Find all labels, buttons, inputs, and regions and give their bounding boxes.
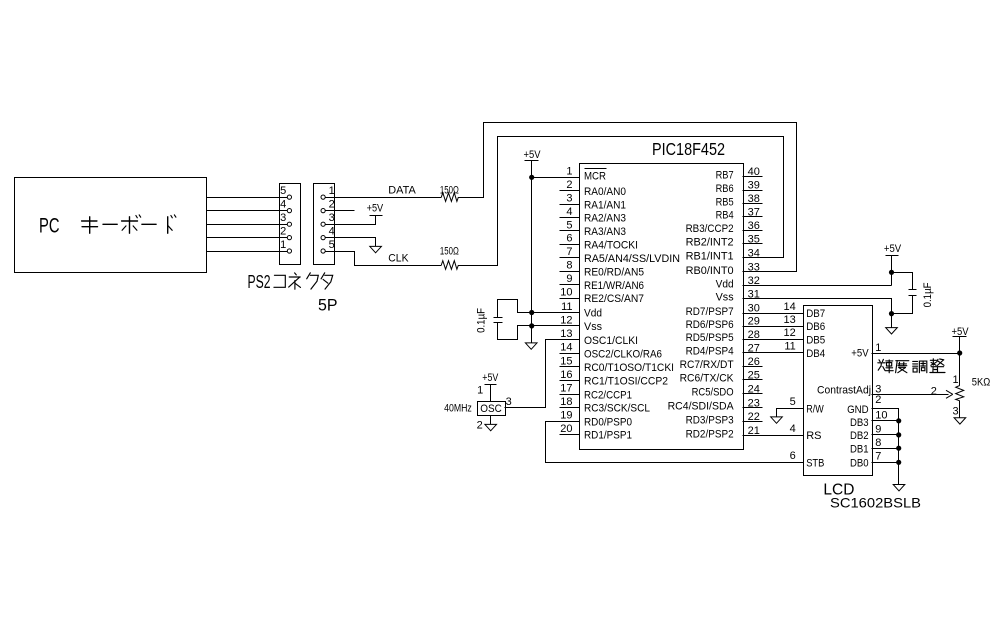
svg-text:24: 24 <box>748 383 760 395</box>
svg-text:CLK: CLK <box>388 253 409 265</box>
svg-text:OSC2/CLKO/RA6: OSC2/CLKO/RA6 <box>584 348 662 360</box>
svg-text:RB2/INT2: RB2/INT2 <box>686 237 734 249</box>
svg-text:29: 29 <box>748 316 760 328</box>
svg-text:RD0/PSP0: RD0/PSP0 <box>584 416 632 428</box>
svg-text:1: 1 <box>566 166 572 178</box>
svg-text:26: 26 <box>748 356 760 368</box>
svg-text:5: 5 <box>329 239 335 251</box>
svg-text:RB6: RB6 <box>716 183 734 195</box>
svg-text:+5V: +5V <box>482 372 499 384</box>
svg-text:8: 8 <box>566 260 572 272</box>
svg-text:30: 30 <box>748 303 760 315</box>
svg-text:2: 2 <box>329 199 335 211</box>
svg-text:OSC1/CLKI: OSC1/CLKI <box>584 335 638 347</box>
svg-text:DB6: DB6 <box>806 321 825 333</box>
svg-text:5: 5 <box>790 396 796 408</box>
svg-text:1: 1 <box>953 374 959 386</box>
svg-text:Vdd: Vdd <box>716 278 734 290</box>
svg-text:RC0/T1OSO/T1CKI: RC0/T1OSO/T1CKI <box>584 362 674 374</box>
svg-text:150Ω: 150Ω <box>440 246 459 258</box>
svg-text:RA5/AN4/SS/LVDIN: RA5/AN4/SS/LVDIN <box>584 253 680 265</box>
svg-text:+5V: +5V <box>367 202 384 214</box>
svg-text:5P: 5P <box>318 296 338 314</box>
svg-text:10: 10 <box>875 410 887 422</box>
svg-text:15: 15 <box>560 355 572 367</box>
svg-text:5: 5 <box>566 219 572 231</box>
svg-text:RB5: RB5 <box>716 196 734 208</box>
svg-text:7: 7 <box>566 246 572 258</box>
svg-text:5KΩ: 5KΩ <box>972 377 991 389</box>
svg-text:RD1/PSP1: RD1/PSP1 <box>584 430 632 442</box>
svg-text:DATA: DATA <box>388 185 416 197</box>
svg-text:RE0/RD/AN5: RE0/RD/AN5 <box>584 266 644 278</box>
svg-text:DB7: DB7 <box>806 308 825 320</box>
svg-text:13: 13 <box>560 328 572 340</box>
svg-text:11: 11 <box>784 341 795 353</box>
svg-text:1: 1 <box>329 185 335 197</box>
svg-text:1: 1 <box>477 385 483 397</box>
svg-text:34: 34 <box>748 247 760 259</box>
svg-text:RA1/AN1: RA1/AN1 <box>584 199 626 211</box>
svg-text:18: 18 <box>560 396 572 408</box>
svg-text:31: 31 <box>748 288 760 300</box>
svg-text:22: 22 <box>748 411 760 423</box>
svg-text:3: 3 <box>506 396 512 408</box>
svg-text:Vss: Vss <box>716 292 734 304</box>
svg-text:PIC18F452: PIC18F452 <box>652 139 725 159</box>
svg-text:27: 27 <box>748 342 760 354</box>
svg-text:3: 3 <box>280 212 286 224</box>
svg-text:11: 11 <box>561 301 572 313</box>
svg-text:35: 35 <box>748 233 760 245</box>
svg-text:RA0/AN0: RA0/AN0 <box>584 186 626 198</box>
svg-text:10: 10 <box>560 286 572 298</box>
svg-text:RC3/SCK/SCL: RC3/SCK/SCL <box>584 403 650 415</box>
svg-text:2: 2 <box>280 226 286 238</box>
svg-text:19: 19 <box>560 410 572 422</box>
svg-text:39: 39 <box>748 180 760 192</box>
svg-text:6: 6 <box>566 233 572 245</box>
svg-text:16: 16 <box>560 369 572 381</box>
svg-text:40: 40 <box>748 166 760 178</box>
svg-text:DB2: DB2 <box>850 430 869 442</box>
svg-text:RE2/CS/AN7: RE2/CS/AN7 <box>584 293 644 305</box>
svg-text:40MHz: 40MHz <box>444 403 472 415</box>
svg-text:23: 23 <box>748 397 760 409</box>
svg-text:Vdd: Vdd <box>584 308 602 320</box>
svg-text:Vss: Vss <box>584 321 602 333</box>
svg-text:8: 8 <box>875 437 881 449</box>
svg-text:RC2/CCP1: RC2/CCP1 <box>584 389 632 401</box>
svg-text:14: 14 <box>560 342 572 354</box>
svg-text:RB1/INT1: RB1/INT1 <box>686 251 734 263</box>
svg-text:17: 17 <box>560 383 572 395</box>
svg-text:DB5: DB5 <box>806 334 825 346</box>
svg-text:GND: GND <box>847 404 869 416</box>
svg-text:+5V: +5V <box>851 347 869 359</box>
svg-text:33: 33 <box>748 262 760 274</box>
svg-text:DB3: DB3 <box>850 417 869 429</box>
svg-text:0.1µF: 0.1µF <box>476 308 488 333</box>
svg-text:RB0/INT0: RB0/INT0 <box>686 265 734 277</box>
svg-text:RA2/AN3: RA2/AN3 <box>584 213 626 225</box>
svg-text:RC6/TX/CK: RC6/TX/CK <box>680 373 735 385</box>
svg-text:SC1602BSLB: SC1602BSLB <box>830 495 921 511</box>
svg-text:MCR: MCR <box>584 170 606 182</box>
svg-text:3: 3 <box>953 405 959 417</box>
svg-text:4: 4 <box>566 206 572 218</box>
svg-text:PC: PC <box>39 215 60 238</box>
svg-text:5: 5 <box>280 185 286 197</box>
svg-text:RB7: RB7 <box>716 170 734 182</box>
svg-text:RD6/PSP6: RD6/PSP6 <box>686 319 734 331</box>
svg-text:3: 3 <box>329 212 335 224</box>
svg-text:+5V: +5V <box>884 243 902 255</box>
svg-text:PS2: PS2 <box>248 271 271 292</box>
svg-text:3: 3 <box>566 193 572 205</box>
svg-text:6: 6 <box>790 450 796 462</box>
svg-text:RA4/TOCKI: RA4/TOCKI <box>584 240 638 252</box>
svg-text:37: 37 <box>748 206 760 218</box>
svg-text:32: 32 <box>748 275 760 287</box>
svg-text:21: 21 <box>748 425 760 437</box>
svg-text:RC5/SDO: RC5/SDO <box>692 387 734 399</box>
svg-text:RC4/SDI/SDA: RC4/SDI/SDA <box>668 401 735 413</box>
svg-text:12: 12 <box>784 327 796 339</box>
svg-text:38: 38 <box>748 193 760 205</box>
svg-text:ContrastAdj: ContrastAdj <box>817 385 871 397</box>
svg-text:1: 1 <box>875 342 881 354</box>
svg-text:RB4: RB4 <box>716 210 734 222</box>
svg-text:R/W: R/W <box>806 404 824 416</box>
svg-text:9: 9 <box>875 423 881 435</box>
svg-text:4: 4 <box>790 423 796 435</box>
svg-text:RD2/PSP2: RD2/PSP2 <box>686 428 734 440</box>
svg-text:+5V: +5V <box>524 149 542 161</box>
svg-text:OSC: OSC <box>480 403 502 415</box>
svg-text:4: 4 <box>280 199 286 211</box>
svg-text:DB1: DB1 <box>850 443 869 455</box>
svg-text:2: 2 <box>566 179 572 191</box>
svg-text:7: 7 <box>875 450 881 462</box>
svg-text:STB: STB <box>806 457 824 469</box>
svg-text:RD7/PSP7: RD7/PSP7 <box>686 306 734 318</box>
svg-text:1: 1 <box>280 239 286 251</box>
svg-text:2: 2 <box>477 419 483 431</box>
svg-text:RC1/T1OSI/CCP2: RC1/T1OSI/CCP2 <box>584 376 668 388</box>
svg-text:12: 12 <box>560 314 572 326</box>
svg-text:RE1/WR/AN6: RE1/WR/AN6 <box>584 280 644 292</box>
svg-text:RD4/PSP4: RD4/PSP4 <box>686 346 734 358</box>
svg-text:2: 2 <box>931 385 937 397</box>
svg-text:150Ω: 150Ω <box>440 184 459 196</box>
svg-text:+5V: +5V <box>952 326 970 338</box>
svg-text:RD3/PSP3: RD3/PSP3 <box>686 415 734 427</box>
svg-text:DB0: DB0 <box>850 458 869 470</box>
svg-text:RA3/AN3: RA3/AN3 <box>584 226 626 238</box>
svg-text:RC7/RX/DT: RC7/RX/DT <box>680 359 734 371</box>
svg-text:2: 2 <box>875 394 881 406</box>
svg-text:25: 25 <box>748 369 760 381</box>
svg-text:DB4: DB4 <box>806 348 825 360</box>
svg-text:RD5/PSP5: RD5/PSP5 <box>686 332 734 344</box>
svg-text:14: 14 <box>784 301 796 313</box>
svg-text:9: 9 <box>566 273 572 285</box>
svg-text:36: 36 <box>748 220 760 232</box>
svg-text:RB3/CCP2: RB3/CCP2 <box>686 223 734 235</box>
svg-text:28: 28 <box>748 329 760 341</box>
svg-text:13: 13 <box>784 314 796 326</box>
svg-text:20: 20 <box>560 423 572 435</box>
svg-text:RS: RS <box>806 430 821 442</box>
svg-text:0.1µF: 0.1µF <box>922 282 934 307</box>
svg-text:4: 4 <box>329 226 335 238</box>
